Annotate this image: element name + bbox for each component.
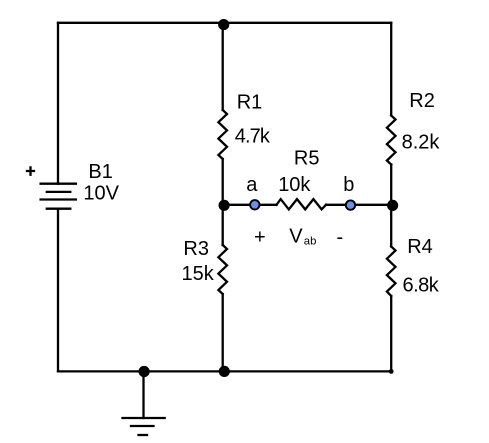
svg-text:+: + xyxy=(254,227,266,249)
svg-text:4.7k: 4.7k xyxy=(235,125,271,147)
svg-text:R1: R1 xyxy=(237,91,263,113)
svg-text:B1: B1 xyxy=(88,161,112,183)
svg-text:b: b xyxy=(343,174,354,196)
svg-text:R4: R4 xyxy=(407,236,433,258)
svg-text:a: a xyxy=(246,174,258,196)
svg-text:8.2k: 8.2k xyxy=(402,132,441,154)
svg-text:10k: 10k xyxy=(278,174,311,196)
svg-text:15k: 15k xyxy=(182,263,215,285)
svg-text:R3: R3 xyxy=(183,238,209,260)
svg-text:6.8k: 6.8k xyxy=(403,274,440,296)
svg-text:10V: 10V xyxy=(83,183,119,205)
svg-text:-: - xyxy=(337,227,344,249)
svg-text:V: V xyxy=(289,226,303,248)
svg-text:ab: ab xyxy=(304,235,317,247)
svg-text:R2: R2 xyxy=(409,90,435,112)
svg-text:R5: R5 xyxy=(294,148,320,170)
